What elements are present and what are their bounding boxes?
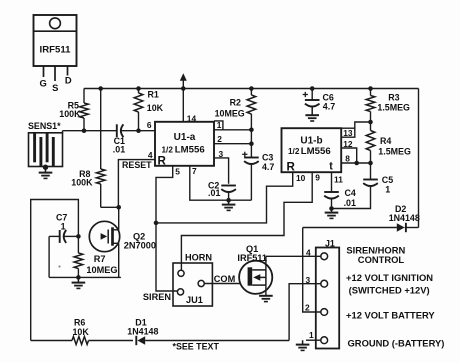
svg-text:10: 10 <box>296 173 306 183</box>
svg-text:SIREN: SIREN <box>143 292 171 302</box>
svg-text:RESET: RESET <box>122 160 152 170</box>
artifact speck <box>58 265 60 267</box>
svg-text:10MEG: 10MEG <box>215 109 245 119</box>
svg-text:.01: .01 <box>113 145 125 155</box>
ground below C2 <box>222 200 236 210</box>
svg-text:6: 6 <box>147 120 152 130</box>
svg-text:IRF511: IRF511 <box>237 253 267 263</box>
wire C1 to pin 6 of U1-a <box>121 130 155 132</box>
wire SENS1 to C1 <box>63 130 117 132</box>
svg-text:J1: J1 <box>325 238 335 248</box>
svg-text:R6: R6 <box>74 317 85 327</box>
svg-text:1N4148: 1N4148 <box>127 326 158 336</box>
ground below SENS1 <box>39 165 53 179</box>
resistor R7 <box>74 236 83 277</box>
svg-text:R: R <box>287 160 296 173</box>
capacitor C1 <box>117 124 124 137</box>
svg-text:R: R <box>158 154 167 167</box>
svg-text:C5: C5 <box>382 175 393 185</box>
wire pin 12 to pin 8 wire <box>341 148 357 163</box>
svg-text:*SEE TEXT: *SEE TEXT <box>173 342 220 352</box>
svg-text:t: t <box>329 160 333 172</box>
wire COM to Q1 gate <box>204 283 240 285</box>
svg-text:13: 13 <box>343 128 353 138</box>
resistor R2 <box>247 89 256 144</box>
svg-text:1/2: 1/2 <box>162 146 174 155</box>
resistor R3 <box>366 89 375 123</box>
svg-text:.01: .01 <box>208 188 220 198</box>
svg-text:R4: R4 <box>380 136 391 146</box>
svg-text:.01: .01 <box>344 198 356 208</box>
svg-text:R7: R7 <box>94 254 106 264</box>
wire pin 5 down-jog <box>156 166 173 223</box>
svg-text:4.7: 4.7 <box>323 102 335 112</box>
ground below C6 <box>305 114 319 116</box>
diode D1 <box>136 336 289 345</box>
sensor SENS1 touch plate <box>29 131 63 167</box>
power arrow +12V <box>180 73 187 88</box>
node rail/R8 junction <box>98 86 103 91</box>
node R1/C1 junction <box>136 128 141 133</box>
transistor Q2 2N7000 <box>89 207 119 277</box>
wire trigger rail to J1 pin 3 <box>289 284 321 341</box>
svg-text:10K: 10K <box>73 327 90 337</box>
resistor R8 with leads (rail to reset node) <box>96 89 118 208</box>
node rail/C6 junction <box>310 86 315 91</box>
wire right edge vertical (rail to D2) <box>418 89 420 228</box>
wire pin 10 to pin 5 (staircase) <box>156 172 293 223</box>
wire C7 left to ground rail <box>48 236 50 277</box>
svg-text:HORN: HORN <box>185 253 212 263</box>
svg-text:SENS1*: SENS1* <box>28 121 61 131</box>
svg-text:8: 8 <box>345 154 350 164</box>
svg-text:100K: 100K <box>71 178 93 188</box>
diode D2 <box>397 223 419 232</box>
svg-text:1.5MEG: 1.5MEG <box>378 146 411 156</box>
svg-text:1: 1 <box>385 184 390 194</box>
svg-text:1: 1 <box>309 330 314 340</box>
node reset/drain junction <box>116 205 121 210</box>
node pin1/R2 junction <box>249 128 254 133</box>
svg-text:1.5MEG: 1.5MEG <box>377 102 410 112</box>
op-amp U1-a (1/2 LM556 timer) <box>155 122 214 168</box>
svg-text:LM556: LM556 <box>175 145 205 156</box>
svg-text:R1: R1 <box>148 90 159 100</box>
ground below C4 <box>325 209 339 219</box>
wire pin 2 to R2 <box>214 143 251 145</box>
wire pin 9 to HORN jumper pin (staircase) <box>181 172 312 270</box>
svg-text:2: 2 <box>305 302 310 312</box>
wire Q1 drain to J1 pin 4 <box>266 255 321 257</box>
capacitor C6 polarity <box>303 94 308 96</box>
svg-text:C4: C4 <box>345 188 356 198</box>
svg-text:7: 7 <box>192 166 197 176</box>
wire pin 4 (reset) to Q2 drain node <box>118 160 155 208</box>
svg-text:C3: C3 <box>262 152 273 162</box>
svg-text:G: G <box>40 78 47 89</box>
svg-text:(SWITCHED +12V): (SWITCHED +12V) <box>349 284 430 295</box>
ground below R7 <box>72 277 86 288</box>
resistor R4 <box>366 122 375 163</box>
capacitor C2 <box>221 185 236 187</box>
transistor package drawing IRF511 (TO-220 outline) <box>34 15 77 93</box>
transistor Q1 IRF511 <box>239 256 272 295</box>
node Q2 gate junction <box>76 234 81 239</box>
node rail/R2 junction <box>249 86 254 91</box>
svg-text:3: 3 <box>306 275 311 285</box>
svg-text:CONTROL: CONTROL <box>358 254 405 265</box>
wire J1 pin 2 to D2 anode <box>303 228 321 313</box>
svg-text:100K: 100K <box>59 109 81 119</box>
svg-text:+12 VOLT BATTERY: +12 VOLT BATTERY <box>346 310 435 321</box>
wire pin 8 to R4/C5 junction <box>341 162 370 164</box>
svg-text:10MEG: 10MEG <box>86 265 117 275</box>
wire battery to D2 <box>303 227 397 229</box>
svg-text:R2: R2 <box>230 98 241 108</box>
svg-text:+12 VOLT IGNITION: +12 VOLT IGNITION <box>346 272 433 283</box>
svg-text:COM: COM <box>214 274 236 284</box>
svg-text:9: 9 <box>315 173 320 183</box>
node pin12/pin8 junction <box>354 161 359 166</box>
capacitor C6 <box>305 89 320 115</box>
node R3/R4/pin13 junction <box>368 120 373 125</box>
svg-text:11: 11 <box>334 175 343 185</box>
resistor R5 <box>80 89 89 131</box>
svg-text:2N7000: 2N7000 <box>124 240 156 250</box>
wire source/ground bottom rail <box>49 276 121 278</box>
wire C2 to C3 bottom <box>228 193 230 201</box>
svg-text:LM556: LM556 <box>301 146 331 157</box>
svg-text:D: D <box>65 75 72 86</box>
wire pin 11 to C4 <box>331 172 333 192</box>
wire +12V top rail <box>84 88 419 90</box>
wire pin 14 of U1-a to rail <box>182 89 184 122</box>
capacitor C3 polarity <box>242 153 247 155</box>
node pin5/pin10/siren junction <box>154 221 159 226</box>
svg-text:S: S <box>52 82 58 93</box>
node R5/SENS junction <box>82 128 87 133</box>
node rail/pin14 junction <box>181 86 186 91</box>
capacitor C3 <box>244 144 259 201</box>
capacitor C5 <box>332 163 378 209</box>
jumper block JU1 <box>173 263 212 306</box>
node R4/C5/pin8 junction <box>368 161 373 166</box>
wire gate node to trigger loop <box>31 200 79 341</box>
svg-text:5: 5 <box>175 167 180 177</box>
ground at J1 pin 1 <box>296 340 310 350</box>
capacitor C4 <box>324 192 339 209</box>
resistor R1 <box>134 89 143 131</box>
pin 13 box line <box>341 127 355 129</box>
node C2/pin7 ground junction <box>226 198 231 203</box>
wire pin 3 to C2 <box>214 158 229 184</box>
svg-text:1: 1 <box>61 221 66 231</box>
wire pin 13 to R3/R4 junction <box>341 122 370 137</box>
node pin2/R2 junction <box>249 141 254 146</box>
node rail/R3 junction <box>368 86 373 91</box>
capacitor C7 <box>49 230 78 243</box>
svg-text:U1-a: U1-a <box>174 132 196 143</box>
wire J1 pin 1 stub <box>306 339 321 341</box>
svg-text:1/2: 1/2 <box>288 147 300 156</box>
svg-text:1N4148: 1N4148 <box>389 213 420 223</box>
svg-text:U1-b: U1-b <box>300 135 322 146</box>
resistor R6 <box>31 337 133 345</box>
wire pin 7 to C2 ground node <box>190 166 229 200</box>
op-amp U1-b (1/2 LM556 timer) <box>282 128 342 173</box>
pin 1 box stub <box>214 121 223 130</box>
svg-text:GROUND (-BATTERY): GROUND (-BATTERY) <box>348 337 445 348</box>
wire pin 1 to R2 <box>214 129 251 131</box>
svg-text:R3: R3 <box>388 93 399 103</box>
ground below Q1 <box>259 295 273 297</box>
svg-text:JU1: JU1 <box>186 295 203 305</box>
connector J1 <box>316 248 339 349</box>
svg-text:IRF511: IRF511 <box>40 45 72 56</box>
node ground rail junction <box>76 275 81 280</box>
svg-text:10K: 10K <box>147 103 164 113</box>
node C4/C5 ground junction <box>329 206 334 211</box>
wire siren select to JU1 <box>156 223 177 291</box>
svg-text:2: 2 <box>217 134 222 144</box>
svg-text:4: 4 <box>306 248 311 258</box>
svg-text:4: 4 <box>148 150 153 160</box>
node rail/R1 junction <box>136 86 141 91</box>
svg-text:4.7: 4.7 <box>262 162 274 172</box>
